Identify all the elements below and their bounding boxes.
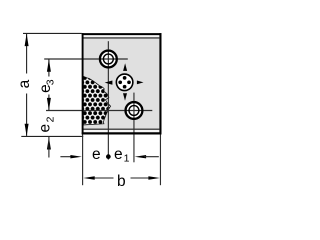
gauge dot south [123, 85, 127, 89]
svg-text:e: e [92, 146, 101, 163]
extension line top (for a) [23, 32, 82, 34]
svg-text:e: e [36, 124, 53, 133]
vertical extension right below plate [159, 135, 161, 186]
break-out blob white background [83, 76, 110, 125]
vertical extension left below plate [82, 135, 84, 186]
dimension e1 outside arrow right [135, 155, 147, 158]
svg-text:a: a [16, 79, 33, 88]
svg-text:e: e [114, 146, 123, 163]
arrow up [123, 63, 127, 71]
dimension e outside arrow left [60, 156, 72, 158]
plate edge top [82, 33, 162, 35]
gauge dot east [127, 80, 131, 84]
plate edge left [82, 33, 84, 134]
dimension e3 arrow top [47, 59, 51, 72]
inner thin line top [83, 37, 160, 39]
plate edge bottom [82, 132, 162, 134]
port P upper: white fill [99, 49, 118, 68]
svg-text:1: 1 [124, 153, 130, 165]
center line vertical lower port [133, 93, 135, 163]
gauge dot west [118, 80, 122, 84]
gauge dot north [123, 76, 127, 80]
port P upper: outer ring [100, 51, 117, 68]
port T lower: outer ring [126, 102, 143, 119]
shared dimension dot [106, 154, 111, 159]
svg-text:3: 3 [45, 79, 57, 85]
dimension b line [92, 177, 114, 179]
center gauge circle [116, 74, 133, 91]
inner thin line bottom [83, 128, 160, 130]
arrow right [137, 81, 144, 85]
arrow left [105, 81, 113, 85]
svg-text:b: b [117, 173, 126, 190]
port P upper: crosshair inside [99, 58, 118, 60]
dimension a arrow bottom [25, 124, 29, 137]
dimension e3 line [48, 59, 50, 76]
extension line bottom-left (for a, e2) [21, 135, 83, 137]
plate base (light strips) [82, 33, 162, 134]
arrow down [123, 93, 127, 101]
dimension e3 arrow bottom [47, 98, 51, 111]
break-out blob dot fill [80, 68, 114, 128]
center line vertical upper port [107, 41, 109, 159]
port T lower: white fill [124, 101, 143, 120]
center line horizontal lower port [46, 110, 152, 112]
plate body fill [82, 38, 162, 129]
dimension b arrow left [83, 176, 95, 179]
port P upper: inner circle [103, 54, 113, 64]
center line horizontal upper port [44, 58, 128, 60]
dimension e2 outside arrow below [47, 137, 51, 150]
port T lower: inner circle [129, 106, 139, 116]
dimension b arrow right [148, 176, 160, 179]
dimension a arrow top [25, 34, 29, 47]
dimension a line [26, 34, 28, 74]
port T lower: crosshair inside [124, 110, 143, 112]
plate edge right [159, 33, 161, 134]
svg-text:2: 2 [45, 116, 57, 122]
